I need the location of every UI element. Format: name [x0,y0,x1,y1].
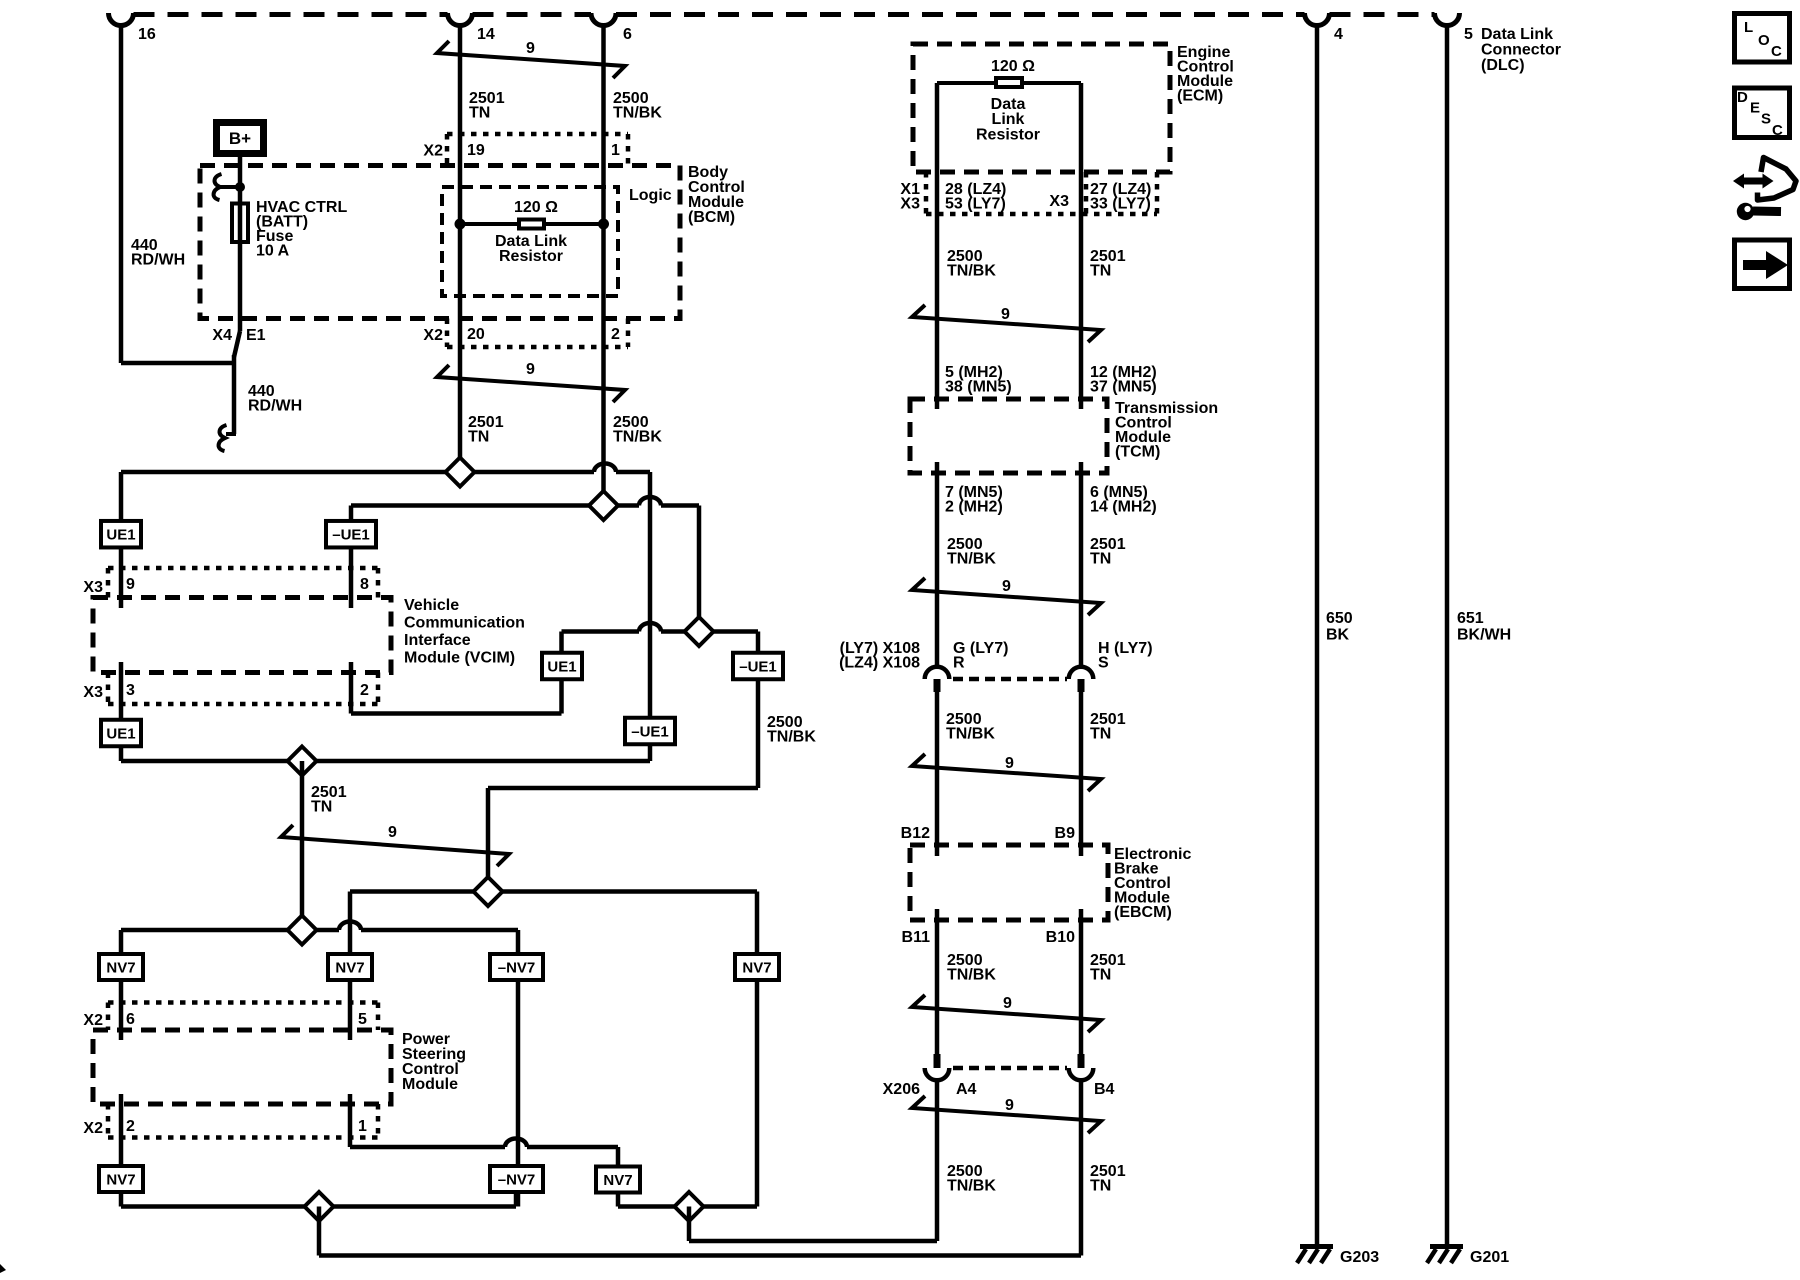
svg-text:TN: TN [1090,263,1111,280]
wire drop to UE1 mid [559,632,564,652]
wire hop over x650 lower [639,623,661,632]
twisted pair symbol 9 (ECM-TCM) [912,305,1101,342]
wire 2501 branch down [300,761,305,930]
connector X206 dashed link [953,1066,1067,1071]
svg-text:X3: X3 [900,196,920,213]
svg-text:C: C [1771,43,1782,60]
svg-text:9: 9 [126,576,135,593]
svg-text:RD/WH: RD/WH [248,398,302,415]
wire PSCM pin2 down [119,1094,124,1207]
connector code box UE1 #1 [101,521,141,548]
VCIM dashed box [93,598,391,673]
svg-text:D: D [1737,89,1748,106]
ECM connector X1/X3 strip [926,212,1157,217]
wire circuit 440 RD/WH from DLC pin 16 [119,24,124,363]
svg-text:TN: TN [311,799,332,816]
TCM dashed box [910,399,1107,473]
wire drop to NV7 row right [755,892,760,1207]
svg-text:9: 9 [526,361,535,378]
svg-text:9: 9 [1005,755,1014,772]
wire 2501 below X206 [1079,1080,1084,1255]
svg-text:2: 2 [360,682,369,699]
svg-text:R: R [953,655,965,672]
wire 2500 TN/BK below TCM [935,462,940,667]
svg-text:5: 5 [1464,26,1473,43]
svg-text:UE1: UE1 [547,659,576,676]
svg-text:9: 9 [1002,578,1011,595]
svg-text:Logic: Logic [629,187,672,204]
svg-text:1: 1 [611,142,620,159]
wire circuit 2500 TN/BK from DLC pin 6 [601,24,606,506]
svg-text:NV7: NV7 [603,1172,632,1189]
wire bus horizontal 5 [350,889,757,894]
svg-text:14 (MH2): 14 (MH2) [1090,499,1157,516]
svg-text:Module: Module [402,1076,458,1093]
svg-text:TN/BK: TN/BK [947,551,996,568]
wire bus horizontal 6 [121,928,339,933]
svg-text:(DLC): (DLC) [1481,57,1525,74]
node diamond D1 [446,458,475,487]
wire 2501 TN ECM right [1079,83,1084,409]
wire -UE1 to bus right [756,681,761,788]
svg-text:TN: TN [468,429,489,446]
svg-text:19: 19 [467,142,485,159]
DLC pin 6 terminal [591,13,616,26]
svg-text:TN: TN [1090,551,1111,568]
svg-text:NV7: NV7 [106,960,135,977]
svg-text:10 A: 10 A [256,243,290,260]
wire bus horizontal 2 [351,503,639,508]
wire 2500 below X108 [935,692,940,856]
wire hop over -NV7 drop [505,1139,527,1148]
wire hop over x650 [639,497,661,506]
PSCM connector X2 strip lower [108,1135,378,1140]
wire circuit 650 BK from DLC pin 4 [1315,24,1320,1245]
DLC pin 16 terminal [108,13,133,26]
svg-text:RD/WH: RD/WH [131,252,185,269]
svg-text:X206: X206 [883,1081,920,1098]
wire bottom rail lower [317,1207,322,1256]
svg-text:6: 6 [126,1011,135,1028]
wire 2500 below X206 [935,1080,940,1241]
svg-text:X2: X2 [83,1012,103,1029]
svg-text:NV7: NV7 [106,1172,135,1189]
svg-text:S: S [1098,655,1109,672]
wire 2500 TN/BK ECM left [935,83,940,409]
node diamond D5 [474,877,503,906]
svg-text:9: 9 [388,824,397,841]
icon LOC box [1735,14,1790,63]
svg-text:TN/BK: TN/BK [947,967,996,984]
junction node right [598,219,609,230]
wire 2500 below EBCM [935,909,940,1054]
svg-text:X2: X2 [423,143,443,160]
connector code box -NV7 #1 [490,954,543,980]
node diamond D3 [685,617,714,646]
wire 2501 TN below TCM [1079,462,1084,667]
svg-text:9: 9 [1003,995,1012,1012]
DLC pin 4 terminal [1305,13,1330,26]
twisted pair symbol 9 (left mid) [281,825,509,866]
svg-text:TN: TN [1090,1178,1111,1195]
svg-text:53 (LY7): 53 (LY7) [945,196,1006,213]
wire VCIM pin3 to UE1 [119,662,124,761]
connector code box -UE1 #3 [733,653,783,680]
svg-text:3: 3 [126,682,135,699]
connector code box NV7 #3 [735,954,779,980]
in-line connector X108 left [925,667,950,679]
svg-text:L: L [1744,19,1753,36]
wire drop to UE1 [119,472,124,608]
svg-text:9: 9 [1001,306,1010,323]
icon forward arrow box [1735,240,1790,289]
svg-text:8: 8 [360,576,369,593]
DLC pin 14 terminal [448,13,473,26]
svg-text:B11: B11 [902,929,931,946]
svg-text:X2: X2 [423,327,443,344]
icon DESC box [1735,88,1790,138]
EBCM dashed box [910,845,1108,920]
wire PSCM pin1 link [348,1094,353,1147]
svg-text:Resistor: Resistor [499,248,563,265]
resistor 120 ohm ECM [996,78,1022,87]
svg-text:B12: B12 [901,825,930,842]
svg-text:NV7: NV7 [335,960,364,977]
connector X108 dashed link [953,677,1067,682]
BCM data link resistor wire [460,222,604,226]
wire end curl [226,432,236,436]
wire drop -NV7 #1 [516,930,521,1207]
wire bus horizontal 8 [618,1204,757,1209]
svg-text:C: C [1772,122,1783,139]
svg-text:E1: E1 [246,327,266,344]
svg-text:TN/BK: TN/BK [613,105,662,122]
twisted pair symbol 9 (EBCM-X206) [912,995,1101,1032]
svg-text:X4: X4 [212,327,232,344]
svg-text:TN/BK: TN/BK [947,1178,996,1195]
wire bus horizontal 7 [121,1204,516,1209]
svg-text:Communication: Communication [404,615,525,632]
svg-text:B4: B4 [1094,1081,1115,1098]
wire hop over pin6 wire [594,464,616,473]
svg-text:(TCM): (TCM) [1115,444,1160,461]
svg-text:–NV7: –NV7 [498,1172,536,1189]
connector code box -UE1 #1 [326,521,376,548]
node diamond D6 [288,916,317,945]
wire drop to -UE1 right [756,632,761,652]
wire bottom rail upper [687,1207,692,1242]
fuse HVAC CTRL 10A [232,204,248,243]
BCM connector X2 strip upper [447,132,628,137]
svg-text:B+: B+ [229,129,251,148]
svg-text:BK: BK [1326,627,1350,644]
svg-text:(LZ4) X108: (LZ4) X108 [839,655,920,672]
svg-text:TN/BK: TN/BK [946,726,995,743]
svg-text:(EBCM): (EBCM) [1114,904,1172,921]
twisted pair symbol 9 (TCM-X108) [912,578,1101,615]
svg-text:B9: B9 [1055,825,1076,842]
svg-text:–UE1: –UE1 [332,527,370,544]
svg-text:2: 2 [611,326,620,343]
VCIM connector X3 strip upper [108,566,378,571]
svg-text:X3: X3 [1049,193,1069,210]
wire fuse output [238,204,243,331]
ECM dashed box [913,44,1170,172]
wire 2501 below X108 [1079,692,1084,856]
svg-text:Module (VCIM): Module (VCIM) [404,650,515,667]
VCIM connector X3 strip lower [108,702,378,707]
svg-text:X3: X3 [83,684,103,701]
icon harness direction symbol [1741,178,1765,185]
connector code box NV7 #4 [99,1166,143,1192]
connector code box -NV7 #2 [490,1166,543,1192]
node diamond D2 [589,491,618,520]
wire drop NV7 #1 [119,930,124,1040]
wire VCIM pin2 link [349,662,354,714]
svg-text:–UE1: –UE1 [739,659,777,676]
fuse clip symbol [214,174,222,200]
svg-text:G201: G201 [1470,1249,1509,1266]
BCM Logic dashed box [442,187,618,296]
ground G203 [1300,1244,1333,1249]
svg-text:9: 9 [1005,1097,1014,1114]
svg-text:14: 14 [477,26,495,43]
page artifact mark bottom-left [0,1264,6,1273]
svg-text:TN/BK: TN/BK [767,729,816,746]
connector code box UE1 #3 [542,653,582,680]
in-line connector X206 right [1078,1054,1085,1068]
twisted pair symbol 9 (below BCM) [437,365,625,402]
svg-text:X3: X3 [83,579,103,596]
twisted pair symbol 9 (X108-EBCM) [912,754,1101,791]
connector code box NV7 #2 [328,954,372,980]
twisted pair symbol 9 (X206-bottom) [912,1096,1101,1133]
ground G201 [1430,1244,1463,1249]
svg-text:9: 9 [526,40,535,57]
wire 440 RD/WH below fuse [232,355,237,434]
svg-text:(ECM): (ECM) [1177,88,1223,105]
svg-text:4: 4 [1334,26,1343,43]
svg-text:G203: G203 [1340,1249,1379,1266]
wire vertical branch x699 [697,506,702,632]
svg-text:Interface: Interface [404,632,471,649]
svg-text:Resistor: Resistor [976,127,1040,144]
svg-text:Link: Link [992,111,1025,128]
svg-text:TN: TN [469,105,490,122]
svg-text:NV7: NV7 [742,960,771,977]
wire drop to NV7 row left [348,892,353,1041]
wire drop to -UE1 [349,506,354,609]
svg-text:TN: TN [1090,967,1111,984]
in-line connector X206 left [934,1054,941,1068]
wire bus horizontal 1 [121,470,594,475]
node diamond D7 [305,1192,334,1221]
BCM connector X2 strip lower [447,345,628,350]
svg-text:120 Ω: 120 Ω [514,199,558,216]
svg-text:S: S [1761,111,1771,128]
connector code box NV7 #1 [99,954,143,980]
svg-text:Data Link: Data Link [1481,26,1553,43]
svg-text:5: 5 [358,1011,367,1028]
connector pass-through jog X4 E1 [234,331,240,357]
wire bus horizontal 3 [562,629,640,634]
svg-text:X2: X2 [83,1120,103,1137]
wire B+ to fuse [238,157,243,204]
svg-text:651: 651 [1457,610,1484,627]
svg-text:–UE1: –UE1 [631,724,669,741]
HVAC CTRL fuse block and BCM dashed outline [200,166,680,319]
junction node left [455,219,466,230]
svg-text:–NV7: –NV7 [498,960,536,977]
svg-text:Connector: Connector [1481,42,1561,59]
ECM data link resistor wire [937,81,1081,85]
svg-text:16: 16 [138,26,156,43]
svg-text:6: 6 [623,26,632,43]
svg-text:1: 1 [358,1118,367,1135]
PSCM dashed box [93,1030,391,1104]
svg-text:E: E [1750,100,1760,117]
svg-text:TN: TN [1090,726,1111,743]
svg-text:(BCM): (BCM) [688,209,735,226]
node diamond D4 [288,747,317,776]
resistor 120 ohm BCM [519,220,544,229]
svg-text:Vehicle: Vehicle [404,597,459,614]
twisted pair symbol 9 (top) [437,41,625,78]
svg-text:37 (MN5): 37 (MN5) [1090,379,1157,396]
svg-text:TN/BK: TN/BK [613,429,662,446]
svg-text:O: O [1758,32,1770,49]
wire circuit 2501 TN from DLC pin 14 [458,24,463,472]
wire circuit 651 BK/WH from DLC pin 5 [1445,24,1450,1245]
connector code box NV7 #5 [596,1167,640,1193]
svg-text:BK/WH: BK/WH [1457,627,1511,644]
node diamond D8 [675,1192,704,1221]
connector code box -UE1 #2 [625,718,675,745]
svg-text:2 (MH2): 2 (MH2) [945,499,1003,516]
svg-text:TN/BK: TN/BK [947,263,996,280]
svg-text:33 (LY7): 33 (LY7) [1090,196,1151,213]
svg-text:UE1: UE1 [106,726,135,743]
in-line connector X108 right [1069,667,1094,679]
wire bus horizontal 4 [121,759,650,764]
svg-text:2: 2 [126,1118,135,1135]
B+ battery feed symbol [217,123,264,154]
DLC pin 5 terminal [1435,13,1460,26]
svg-text:120 Ω: 120 Ω [991,58,1035,75]
svg-text:38 (MN5): 38 (MN5) [945,379,1012,396]
svg-text:650: 650 [1326,610,1353,627]
wire 2501 below EBCM [1079,909,1084,1054]
wire vertical branch x650 [648,472,653,746]
connector code box UE1 #2 [101,720,141,747]
svg-text:UE1: UE1 [106,527,135,544]
svg-text:A4: A4 [956,1081,977,1098]
PSCM connector X2 strip upper [108,1000,378,1005]
wire hop over x350 [339,922,361,931]
DLC connector dashed boundary line [134,12,448,17]
svg-text:20: 20 [467,326,485,343]
svg-text:B10: B10 [1046,929,1075,946]
